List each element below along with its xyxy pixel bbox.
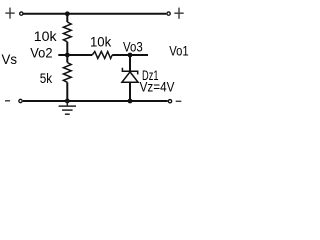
minus sign (output - terminal) (176, 100, 182, 102)
plus sign (output + terminal) (174, 8, 183, 19)
svg-text:5k: 5k (40, 70, 53, 86)
wire from node Vo2 to resistor R3 (67, 54, 92, 56)
svg-text:Vs: Vs (2, 51, 18, 67)
wire stub left of node Vo2 (58, 54, 67, 56)
svg-text:Vo2: Vo2 (30, 44, 52, 60)
resistor R2 5k (vertical, bottom) (63, 55, 71, 101)
node Vo2 junction dot (65, 53, 70, 58)
svg-text:Vo1: Vo1 (169, 43, 189, 59)
resistor R1 10k (vertical, top) (63, 14, 71, 55)
zener diode Dz1 (122, 68, 138, 83)
svg-text:Vo3: Vo3 (123, 38, 143, 54)
svg-text:Vz=4V: Vz=4V (140, 79, 175, 95)
wire from zener anode to bottom rail (129, 82, 131, 101)
junction node ground on bottom rail (65, 99, 70, 104)
junction node zener anode on bottom rail (128, 99, 133, 104)
node Vo3 junction dot (128, 53, 133, 58)
terminal circle output + (167, 12, 170, 15)
svg-text:10k: 10k (90, 34, 112, 50)
svg-text:10k: 10k (34, 28, 58, 44)
terminal circle output - (168, 100, 171, 103)
junction node at top rail (65, 11, 70, 16)
ground symbol (59, 101, 76, 114)
terminal circle input - (19, 99, 22, 102)
plus sign (input + terminal) (5, 8, 14, 19)
resistor R3 10k (horizontal) (92, 52, 112, 59)
wire from node Vo3 down to zener cathode (129, 55, 131, 71)
minus sign (input - terminal) (5, 100, 10, 102)
terminal circle input + (20, 12, 23, 15)
wire bottom rail (23, 100, 168, 102)
wire from R3 to node Vo3 and open stub (112, 54, 148, 56)
wire top rail (23, 13, 166, 15)
